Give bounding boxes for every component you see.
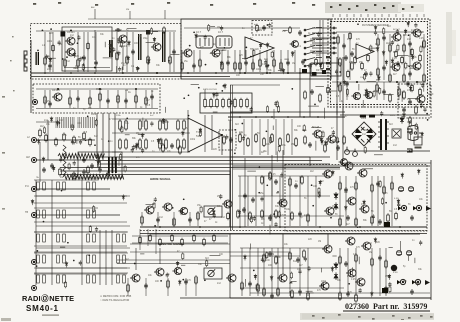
small diode: [370, 291, 373, 297]
capacitor C53: [298, 289, 302, 295]
transistor Q25 output: [343, 162, 353, 170]
IF amplifier section box: [181, 19, 331, 79]
capacitor C16: [106, 98, 110, 104]
selector switch contact x38 y279: [37, 275, 40, 283]
resistor R124: [355, 253, 358, 263]
component lead: [44, 90, 46, 108]
wire: [299, 68, 301, 117]
wire: [310, 50, 328, 52]
small capacitor: [250, 107, 253, 112]
junction dot: [291, 88, 293, 90]
svg-text:RADIⓄNETTE: RADIⓄNETTE: [22, 294, 74, 303]
small diode: [365, 89, 368, 95]
svg-text:10.7: 10.7: [196, 30, 202, 34]
junction dot: [224, 47, 226, 49]
amp lead: [271, 248, 273, 296]
resistor R94: [289, 177, 292, 187]
scan speck: [358, 316, 361, 318]
resistor R154: [321, 62, 324, 71]
capacitor C68: [308, 63, 312, 69]
small capacitor: [58, 40, 61, 45]
svg-text:TB: TB: [25, 211, 28, 214]
component lead: [252, 50, 254, 72]
resistor R55: [162, 143, 165, 153]
diode D4: [334, 262, 338, 270]
component lead: [280, 50, 282, 72]
resistor R13: [221, 61, 224, 71]
resistor R126: [385, 259, 388, 269]
wire: [36, 267, 130, 269]
top margin tick: [312, 4, 315, 6]
connector stub: [346, 14, 348, 17]
resistor R2: [52, 44, 55, 53]
resistor R33: [228, 98, 231, 109]
resistor R145: [367, 54, 370, 63]
junction: [271, 116, 273, 118]
transistor Q39 output: [355, 278, 365, 286]
junction dot: [37, 50, 39, 52]
transistor Q11 decoder: [411, 29, 421, 37]
connector stub: [416, 14, 418, 17]
junction dot: [427, 119, 429, 121]
amp lead: [299, 176, 301, 226]
dark blob component 3: [322, 70, 326, 74]
selector switch contact x94 y238: [93, 234, 96, 242]
wire: [204, 90, 206, 100]
decoder lead: [349, 34, 351, 80]
wire: [238, 175, 330, 177]
small capacitor: [132, 145, 135, 150]
small resistor: [370, 45, 372, 53]
matrix riser: [259, 119, 261, 155]
decoder drop 2: [342, 108, 344, 160]
junction: [57, 88, 59, 90]
switch interconnect: [34, 245, 127, 247]
IF transformer can T2: [216, 36, 232, 48]
wire: [94, 30, 96, 60]
ratio detector trim box (dashed): [252, 21, 272, 36]
mains switch contact lower: [407, 149, 412, 152]
resistor R74: [351, 61, 354, 71]
resistor R161: [203, 238, 206, 247]
decoder top rail: [336, 31, 424, 33]
resistor R109: [395, 212, 398, 221]
connector stub: [423, 14, 425, 17]
svg-text:AF126: AF126: [52, 88, 60, 92]
junction dot: [70, 156, 72, 158]
resistor R81: [389, 93, 392, 103]
switch row wire: [34, 252, 128, 254]
resistor R113: [241, 281, 244, 291]
connector stub: [332, 14, 334, 17]
amp lead: [307, 248, 309, 296]
small diode: [212, 210, 215, 216]
capacitor C5: [115, 28, 121, 32]
small resistor: [182, 252, 184, 260]
capacitor C15: [76, 96, 80, 102]
selector switch contact x58 y259: [57, 255, 60, 263]
band switch S1 contacts: [304, 28, 322, 67]
junction dot: [134, 263, 136, 265]
resistor R11: [181, 61, 184, 71]
junction dot: [61, 190, 63, 192]
selector switch contact x88 y238: [87, 234, 90, 242]
small diode: [411, 55, 414, 61]
small diode: [254, 274, 257, 280]
power transistor dark: [391, 265, 397, 271]
amp lead: [249, 248, 251, 296]
resistor R101: [355, 181, 358, 191]
small resistor: [269, 172, 271, 180]
capacitor C43: [376, 181, 380, 187]
transistor Q26 output: [357, 169, 367, 177]
resistor R132: [327, 86, 330, 95]
capacitor C1: [48, 63, 52, 69]
small capacitor: [261, 257, 264, 262]
speaker arrow left: [425, 280, 430, 285]
resistor R138: [83, 131, 86, 140]
resistor R26: [117, 94, 120, 104]
preamp lead: [141, 212, 143, 226]
small diode: [135, 144, 138, 150]
resistor R147: [401, 56, 404, 65]
capacitor C60: [50, 163, 54, 169]
small resistor: [160, 138, 162, 146]
signal bus: [95, 160, 322, 162]
scan speck: [348, 8, 350, 10]
svg-text:SM40-1: SM40-1: [26, 304, 59, 313]
resistor R163: [98, 159, 101, 169]
wire stub: [401, 91, 403, 102]
resistor R90: [237, 209, 240, 219]
transistor Q33 driver: [277, 274, 287, 282]
junction: [94, 72, 96, 74]
resistor R117: [289, 251, 292, 261]
junction dot: [73, 260, 75, 262]
small diode: [332, 170, 335, 176]
wire stub: [272, 126, 274, 131]
small diode: [136, 66, 139, 72]
IF transformer can T1: [196, 36, 213, 48]
wire stub: [311, 127, 321, 129]
svg-text:1M: 1M: [332, 206, 335, 208]
wire: [340, 162, 431, 164]
scan speck: [408, 317, 411, 319]
small resistor: [95, 119, 97, 127]
capacitor C26: [344, 55, 348, 61]
svg-text:0.25: 0.25: [351, 279, 356, 281]
switch column wire: [111, 230, 113, 285]
svg-text:P.U.: P.U.: [25, 185, 30, 188]
speaker arrow right: [426, 206, 431, 211]
small resistor: [397, 44, 399, 52]
small diode: [220, 61, 223, 67]
resistor R58: [255, 133, 258, 143]
wire stub: [118, 158, 120, 166]
capacitor C27: [382, 65, 386, 71]
junction dot: [108, 140, 110, 142]
resistor R19: [273, 58, 276, 68]
wire stub: [315, 85, 324, 87]
resistor R30: [210, 98, 213, 109]
transistor Q9 tone amp: [326, 135, 336, 143]
resistor R111: [167, 279, 170, 289]
decoder drop: [336, 108, 338, 160]
capacitor C29: [345, 81, 349, 87]
svg-text:det: det: [254, 23, 257, 26]
capacitor C57: [410, 289, 414, 295]
resistor R123: [339, 255, 342, 265]
svg-text:0.25: 0.25: [262, 64, 267, 66]
small resistor: [253, 49, 255, 57]
selector switch contact x124 y259: [123, 255, 126, 263]
small resistor: [278, 105, 280, 113]
selector switch contact x64 y238: [63, 234, 66, 242]
small capacitor: [280, 173, 283, 178]
capacitor C63: [350, 51, 354, 57]
junction dot: [172, 207, 174, 209]
junction dot: [253, 270, 255, 272]
svg-text:027360 Part nr. 315979: 027360 Part nr. 315979: [345, 302, 427, 311]
small capacitor: [335, 69, 338, 74]
wire: [159, 248, 161, 264]
wire stub: [332, 255, 336, 257]
small capacitor: [414, 23, 417, 28]
switch vertical: [99, 230, 101, 285]
riser: [108, 113, 110, 164]
transistor Q34 output driver: [322, 245, 332, 253]
capacitor C6: [172, 49, 176, 55]
junction dot: [312, 205, 314, 207]
svg-text:100k: 100k: [361, 118, 367, 120]
svg-text:0.25: 0.25: [45, 101, 50, 103]
wire stub: [410, 49, 412, 55]
small diode: [31, 199, 34, 205]
supply bus: [31, 72, 331, 74]
wire stub: [368, 47, 378, 49]
resistor R144: [361, 62, 364, 71]
amp lead: [339, 248, 341, 296]
capacitor C70: [90, 163, 94, 169]
small diode: [374, 25, 377, 31]
switch interconnect: [34, 231, 127, 233]
amp lead: [371, 248, 373, 296]
component lead: [181, 50, 183, 72]
dark component lower amp: [382, 288, 388, 293]
small diode: [319, 180, 322, 186]
switch interconnect: [34, 251, 127, 253]
mid bus 2: [230, 156, 330, 158]
resistor R137: [73, 135, 76, 144]
scan speck: [402, 8, 404, 10]
junction dot: [273, 213, 275, 215]
long riser: [211, 115, 213, 150]
resistor R122: [307, 291, 310, 301]
small resistor: [266, 251, 268, 259]
capacitor C66: [406, 81, 410, 87]
svg-text:AM: AM: [26, 156, 30, 159]
small resistor: [124, 165, 126, 173]
resistor R105: [339, 217, 342, 227]
preamp lead: [167, 278, 169, 296]
small capacitor: [166, 273, 169, 278]
top margin tick: [292, 2, 295, 4]
junction: [239, 116, 241, 118]
dark trimmer blob: [61, 32, 66, 37]
scan speck: [372, 318, 375, 320]
decoder lead: [389, 34, 391, 80]
switch interconnect: [34, 195, 127, 197]
resistor R16: [239, 61, 242, 71]
small resistor: [120, 153, 122, 161]
wire stub: [362, 168, 373, 170]
amp top rail: [233, 165, 430, 167]
small diode: [266, 42, 269, 48]
resistor R21: [289, 26, 292, 34]
small diode: [282, 68, 285, 74]
wire stub: [244, 279, 246, 287]
wire: [240, 287, 344, 289]
component lead: [64, 32, 66, 72]
wire stub: [409, 131, 411, 140]
antenna coil L1: [36, 52, 40, 65]
scan speck: [401, 318, 404, 320]
small capacitor: [59, 157, 62, 162]
amp lead: [255, 176, 257, 226]
resistor R148: [411, 48, 414, 57]
small resistor: [276, 101, 278, 109]
wire: [112, 118, 190, 120]
junction dot: [85, 139, 87, 141]
selector switch contact x44 y186: [43, 182, 46, 190]
resistor R112: [195, 275, 198, 285]
capacitor C51: [296, 257, 300, 263]
capacitor C45: [378, 219, 382, 225]
wire: [130, 251, 230, 253]
resistor R118: [303, 249, 306, 259]
resistor R43: [177, 119, 180, 131]
small resistor: [318, 191, 320, 199]
junction dot: [67, 242, 69, 244]
selector switch contact x88 y259: [87, 255, 90, 263]
junction dot: [76, 176, 78, 178]
mains plug P1: [408, 126, 423, 141]
small diode: [385, 60, 388, 66]
capacitor C11: [265, 63, 269, 69]
small capacitor: [79, 260, 82, 265]
wire stub: [125, 134, 130, 136]
junction dot: [259, 166, 261, 168]
top margin tick: [210, 4, 213, 6]
amp lead: [263, 176, 265, 226]
mid-lower wire 2: [230, 255, 300, 257]
resistor R120: [277, 287, 280, 297]
resistor R146: [395, 50, 398, 59]
preamp lead: [197, 212, 199, 226]
selector switch contact x88 y214: [87, 210, 90, 218]
small capacitor: [112, 47, 115, 52]
scan speck: [330, 6, 332, 8]
switch interconnect: [34, 221, 127, 223]
resistor R75: [377, 67, 380, 77]
transistor Q6 IF amp: [210, 49, 220, 57]
rectifier diode D5: [400, 116, 404, 124]
small diode: [42, 157, 45, 163]
top margin tick: [95, 4, 98, 6]
wire: [310, 44, 328, 46]
small capacitor: [242, 136, 245, 141]
amp lead: [299, 248, 301, 296]
decoder lead: [423, 34, 425, 80]
AGC bus: [31, 76, 230, 78]
small diode: [73, 52, 76, 58]
small capacitor: [298, 269, 301, 274]
volume potentiometer P1: [208, 207, 215, 214]
selector switch contact x58 y214: [57, 210, 60, 218]
amp lead: [289, 248, 291, 296]
input filter box: [78, 152, 122, 178]
junction: [187, 72, 189, 74]
wire stub: [191, 83, 199, 85]
wire: [250, 292, 430, 294]
resistor R52: [183, 138, 186, 150]
diode D3: [334, 202, 338, 210]
switch vertical 2: [105, 230, 107, 285]
small capacitor: [421, 83, 424, 88]
wire stub: [121, 67, 123, 74]
svg-text:AM: AM: [91, 6, 94, 9]
small diode: [259, 43, 262, 49]
wire: [310, 38, 328, 40]
small diode: [141, 133, 144, 139]
wire stub: [142, 118, 144, 127]
junction: [359, 226, 361, 228]
resistor R42: [165, 119, 168, 131]
wire stub: [321, 268, 323, 273]
regulator IC U2: [188, 118, 222, 152]
riser: [229, 171, 231, 227]
junction dot: [290, 281, 292, 283]
small resistor: [420, 45, 422, 53]
small resistor: [336, 136, 338, 144]
wire: [122, 46, 124, 70]
junction dot: [357, 23, 359, 25]
switch interconnect: [34, 273, 127, 275]
small diode: [213, 92, 216, 98]
junction: [239, 72, 241, 74]
scanner smudge band bottom 2: [302, 314, 434, 320]
wire: [36, 247, 130, 249]
dark trimmer blob 2: [146, 30, 150, 35]
small diode: [52, 166, 55, 172]
junction dot: [36, 265, 38, 267]
small resistor: [256, 283, 258, 291]
junction: [122, 72, 124, 74]
small capacitor: [372, 214, 375, 219]
capacitor C71: [82, 169, 86, 175]
transistor Q24: [339, 159, 348, 166]
switch interconnect: [34, 267, 127, 269]
resistor R53: [223, 135, 226, 145]
transistor Q7: [290, 41, 299, 48]
svg-text:6.3Ω: 6.3Ω: [394, 197, 399, 200]
resistor R64: [304, 135, 307, 145]
matrix riser: [291, 119, 293, 155]
connector stub: [402, 14, 404, 17]
resistor R15: [256, 24, 259, 33]
junction dot: [168, 60, 170, 62]
transistor Q38 output: [346, 269, 356, 277]
